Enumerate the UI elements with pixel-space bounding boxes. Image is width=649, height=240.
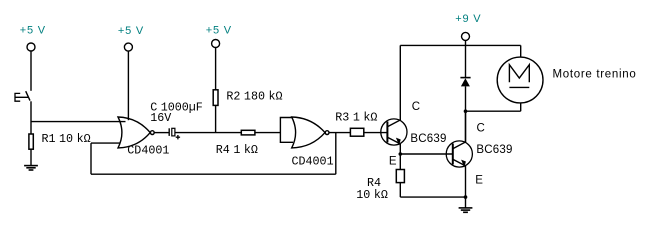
svg-text:+9 V: +9 V [455, 13, 481, 25]
wire gate U1A output to capacitor C [154, 132, 169, 134]
wire node E1 to Q2 base [400, 153, 453, 155]
motor M1 letter M [509, 65, 529, 83]
NOR gate U1A (CD4001) body [118, 117, 150, 148]
wire diode D1 to node D [465, 86, 467, 111]
svg-text:+5 V: +5 V [206, 25, 232, 37]
wire Q2 emitter down [465, 166, 467, 197]
transistor Q2 base bar [452, 144, 454, 165]
wire +9V terminal to rail [465, 40, 467, 45]
pushbutton switch S1 actuator bracket [15, 93, 28, 101]
transistor Q1 circle [381, 119, 407, 145]
node A junction wire to gate U1A input [31, 121, 126, 123]
wire capacitor C to node B and R4 [175, 132, 241, 134]
NOR gate U1A output bubble [150, 131, 154, 135]
feedback wire from U1B output down [335, 133, 337, 175]
resistor R4 (10k) body [396, 170, 404, 183]
+9V top rail wire [400, 44, 520, 46]
resistor R2 body [213, 90, 218, 106]
wire rail to motor top [520, 45, 522, 57]
ground under Q2 [459, 208, 473, 212]
transistor Q2 circle [446, 141, 472, 167]
transistor Q2 emitter arrow [461, 160, 466, 168]
wire from R2 to node B [215, 105, 217, 132]
svg-text:BC639: BC639 [476, 144, 512, 156]
svg-text:+5 V: +5 V [118, 25, 144, 37]
transistor Q1 emitter [387, 137, 400, 144]
feedback wire bottom horizontal [91, 173, 336, 175]
svg-text:R2 180 kΩ: R2 180 kΩ [226, 89, 282, 103]
power +5V terminal 1 circle [27, 43, 35, 51]
wire Q1 emitter to node E1 [399, 144, 401, 154]
transistor Q1 collector [387, 45, 400, 126]
svg-text:E: E [389, 156, 397, 168]
node E1 junction dot [399, 152, 403, 156]
pushbutton switch S1 lever [26, 91, 30, 100]
motor M1 underline [509, 86, 529, 88]
wire motor bottom to node D wire [520, 103, 522, 111]
node G junction dot [464, 195, 468, 199]
wire from switch S1 to node A [30, 101, 32, 134]
resistor R4 (1k) body [241, 130, 255, 135]
feedback wire left vertical [90, 143, 92, 174]
svg-text:C: C [477, 123, 486, 135]
wire gate U1B output to R3 [329, 132, 350, 134]
svg-text:Motore trenino: Motore trenino [553, 68, 637, 80]
svg-text:10 kΩ: 10 kΩ [356, 188, 388, 202]
svg-text:CD4001: CD4001 [292, 154, 334, 168]
svg-text:C: C [412, 101, 421, 113]
NOR gate U1B output bubble [325, 131, 329, 135]
transistor Q1 emitter arrow [396, 138, 401, 146]
wire node E1 to R4 (10k) [399, 154, 401, 170]
diode D1 cathode bar [460, 77, 470, 79]
svg-text:+5 V: +5 V [20, 25, 46, 37]
resistor R1 body [29, 134, 33, 149]
capacitor C plus sign [176, 135, 180, 139]
transistor Q1 base bar [386, 122, 388, 143]
transistor Q2 emitter [453, 159, 466, 166]
ground rail wire to Q2 emitter node [400, 196, 465, 198]
feedback wire to U1A lower input [91, 142, 120, 144]
node D junction dot [464, 109, 468, 113]
svg-text:R4 1 kΩ: R4 1 kΩ [216, 143, 258, 157]
svg-text:R3 1 kΩ: R3 1 kΩ [335, 111, 377, 125]
wire R3 to Q1 base [364, 132, 388, 134]
resistor R3 body [350, 128, 363, 136]
wire from +5V terminal 1 to switch S1 [30, 51, 32, 91]
svg-text:R1 10 kΩ: R1 10 kΩ [42, 132, 91, 146]
capacitor C right plate [172, 128, 175, 136]
transistor Q2 collector [453, 111, 466, 149]
ground under R1 [24, 166, 38, 170]
wire node D to motor bottom [466, 110, 521, 112]
NOR gate U1B (CD4001) body [292, 117, 325, 148]
power +5V terminal 3 circle [212, 40, 220, 48]
svg-text:BC639: BC639 [410, 133, 446, 145]
motor M1 circle [497, 57, 543, 103]
wire node D to Q2 collector [465, 111, 467, 142]
ground stub under Q2 [465, 197, 467, 208]
wire rail down to diode D1 [465, 45, 467, 77]
wire R4 (10k) to ground rail [399, 183, 401, 198]
svg-text:CD4001: CD4001 [127, 143, 169, 157]
power +5V terminal 2 circle [124, 43, 132, 51]
gate U1B input tie bar [280, 118, 293, 143]
wire from +5V terminal 3 to R2 [215, 48, 217, 90]
wire R4 to gate U1B input bar [255, 132, 281, 134]
diode D1 triangle [461, 78, 470, 86]
svg-text:16V: 16V [150, 111, 171, 125]
wire from R1 to ground [30, 149, 32, 165]
wire from +5V terminal 2 to gate U1A Vdd [127, 51, 129, 120]
capacitor C left plate [168, 128, 170, 136]
svg-text:E: E [475, 175, 483, 187]
power +9V terminal circle [462, 32, 470, 40]
